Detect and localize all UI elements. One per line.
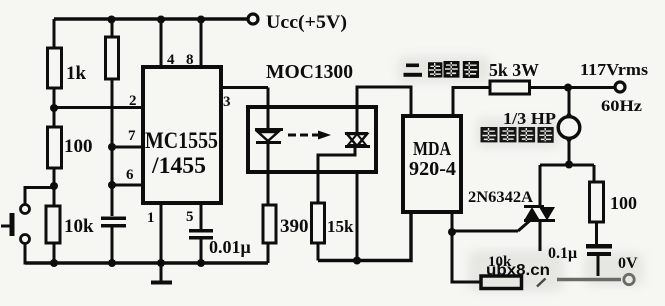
- pin 5 stub: [186, 203, 201, 229]
- wire motor bottom node: [540, 164, 594, 167]
- node dot pin7: [108, 143, 116, 151]
- wire gate run: [452, 230, 518, 233]
- scan haze patches (background tone): [398, 56, 644, 292]
- svg-text:1k: 1k: [66, 63, 87, 84]
- label AC motor (Chinese): [481, 127, 554, 143]
- pin 8 stub: [186, 19, 201, 68]
- node dot rail-pin1: [157, 259, 165, 267]
- node junction rail-1k: [108, 16, 116, 24]
- resistor R3 10k: [46, 186, 94, 263]
- node dot rail-C2: [197, 259, 205, 267]
- pin 1 stub: [147, 203, 161, 263]
- svg-text:MC1555: MC1555: [145, 128, 218, 153]
- ground symbol: [151, 263, 172, 285]
- wire bottom ground rail: [25, 261, 268, 264]
- wire node A to pin 2: [54, 93, 142, 109]
- opto triac element: [318, 87, 411, 203]
- node dot line: [564, 84, 572, 92]
- capacitor C1: [101, 185, 126, 263]
- op-amp U1 MC1555 timer box: [143, 67, 221, 203]
- node dot rail-10k: [50, 259, 58, 267]
- svg-text:10k: 10k: [64, 216, 94, 237]
- wire opto box to bottom node: [356, 172, 359, 261]
- svg-text:60Hz: 60Hz: [601, 98, 642, 115]
- node dot rail-C1: [108, 259, 116, 267]
- motor M1: [503, 88, 580, 165]
- svg-text:117Vrms: 117Vrms: [580, 60, 648, 79]
- svg-text:15k: 15k: [327, 217, 354, 236]
- svg-text:ubx8.cn: ubx8.cn: [486, 262, 550, 279]
- label diode bridge (Chinese): [404, 61, 480, 78]
- watermark: [486, 262, 550, 279]
- wire MDA bottom to gate: [451, 212, 454, 232]
- svg-text:3: 3: [223, 94, 231, 110]
- resistor R2 100: [48, 108, 93, 186]
- node dot gate: [448, 228, 456, 236]
- node A dot: [50, 104, 58, 112]
- wire pin 7: [112, 128, 142, 147]
- wire 0V rail (gray): [557, 274, 634, 284]
- wire pin 6: [112, 167, 142, 185]
- resistor R9 10k (gate): [481, 254, 522, 289]
- node junction rail pin4: [157, 16, 165, 24]
- wire 15k bottom to MDA: [318, 212, 411, 261]
- svg-text:920-4: 920-4: [409, 158, 456, 180]
- wire MDA to 5k: [453, 88, 490, 118]
- svg-text:0.1μ: 0.1μ: [548, 245, 577, 262]
- svg-text:2N6342A: 2N6342A: [468, 189, 533, 206]
- svg-text:100: 100: [610, 193, 637, 213]
- pin 4 stub: [161, 19, 175, 68]
- wire node B to pushbutton: [25, 188, 54, 205]
- svg-text:8: 8: [186, 52, 194, 68]
- svg-text:100: 100: [64, 136, 93, 157]
- opto U2 MOC1300: [248, 61, 376, 172]
- bridge U3 MDA920-4: [403, 116, 461, 212]
- pushbutton S1: [1, 205, 30, 244]
- svg-text:Ucc(+5V): Ucc(+5V): [266, 12, 347, 33]
- node B dot: [50, 182, 58, 190]
- svg-text:6: 6: [126, 167, 134, 183]
- terminal 117V: [580, 60, 648, 115]
- wire to snubber: [593, 165, 596, 182]
- LED inside opto: [255, 88, 283, 206]
- resistor R4 (rail to pin7): [106, 19, 119, 147]
- watermark slash: [537, 279, 546, 287]
- svg-text:0V: 0V: [618, 255, 638, 272]
- capacitor C3 0.1u: [548, 244, 612, 276]
- resistor R8 100: [590, 182, 638, 244]
- resistor R6 15k: [312, 203, 355, 261]
- svg-text:1/3 HP: 1/3 HP: [503, 109, 556, 128]
- terminal Ucc(+5V): [248, 12, 347, 33]
- node dot motor bottom: [565, 161, 573, 169]
- svg-text:1: 1: [147, 210, 155, 226]
- wire pin7 to pin6: [111, 147, 114, 185]
- arrow (light coupling): [288, 131, 331, 140]
- node dot pin6: [108, 181, 116, 189]
- capacitor C2 0.01u: [189, 229, 251, 263]
- wire pushbutton to ground rail: [25, 244, 54, 264]
- wire 5k to line terminal: [530, 86, 616, 89]
- resistor R7 5k 3W: [489, 60, 539, 94]
- svg-text:5: 5: [186, 209, 194, 225]
- wire top +5V rail: [54, 17, 248, 20]
- svg-text:4: 4: [167, 52, 175, 68]
- triac Q1 2N6342A: [468, 165, 555, 251]
- svg-text:5k 3W: 5k 3W: [489, 60, 539, 80]
- resistor R5 390: [263, 205, 309, 263]
- resistor R1 1k: [48, 19, 87, 108]
- svg-text:0.01μ: 0.01μ: [209, 237, 251, 257]
- svg-text:MOC1300: MOC1300: [266, 61, 353, 83]
- svg-text:7: 7: [128, 128, 136, 144]
- node junction rail pin8: [197, 16, 205, 24]
- svg-text:2: 2: [129, 93, 137, 109]
- wire pin 3 to opto LED: [221, 88, 268, 111]
- svg-text:MDA: MDA: [413, 138, 451, 160]
- svg-text:390: 390: [280, 216, 309, 237]
- node dot 15k-opto: [353, 257, 361, 265]
- wire gate to 10k: [452, 232, 481, 282]
- svg-text:/1455: /1455: [151, 153, 206, 178]
